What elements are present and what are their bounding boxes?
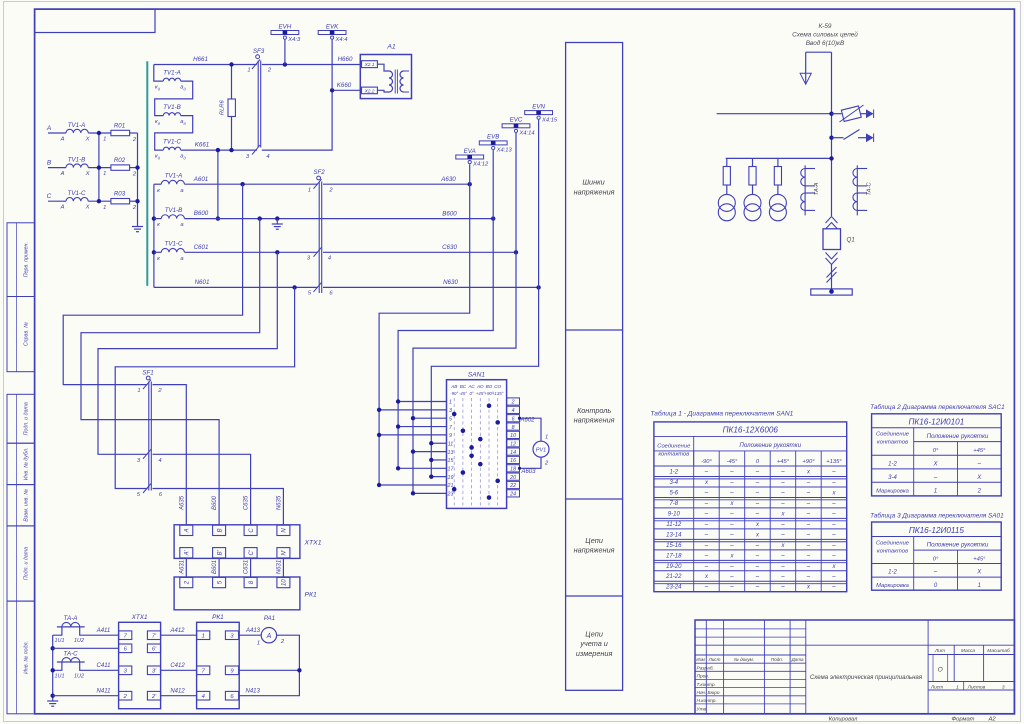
svg-text:–: –: [780, 522, 785, 528]
svg-text:X4:14: X4:14: [518, 131, 534, 137]
svg-text:Маркировка: Маркировка: [876, 488, 910, 494]
svg-text:Инв. № подл.: Инв. № подл.: [24, 641, 30, 674]
svg-text:-45°: -45°: [727, 459, 738, 465]
svg-text:№ докум.: № докум.: [734, 657, 754, 662]
svg-text:N: N: [282, 528, 288, 533]
svg-text:X4:4: X4:4: [335, 37, 348, 43]
svg-text:Взам. инв. №: Взам. инв. №: [24, 489, 30, 522]
svg-text:–: –: [729, 469, 734, 475]
svg-text:–: –: [806, 522, 811, 528]
svg-text:1: 1: [308, 188, 311, 194]
svg-text:X2.1: X2.1: [364, 62, 375, 68]
svg-text:А635: А635: [179, 495, 185, 511]
svg-text:23-24: 23-24: [665, 585, 682, 591]
svg-text:PV1: PV1: [536, 448, 546, 454]
svg-text:–: –: [780, 501, 785, 507]
svg-text:–: –: [755, 501, 760, 507]
svg-text:TV1-B: TV1-B: [163, 104, 181, 111]
svg-text:В600: В600: [212, 495, 218, 510]
svg-text:3: 3: [449, 408, 452, 414]
svg-text:Соединение: Соединение: [657, 444, 691, 450]
svg-text:ПК16-12И0101: ПК16-12И0101: [909, 417, 965, 426]
svg-text:16: 16: [510, 458, 516, 464]
svg-text:–: –: [831, 532, 836, 538]
svg-text:–: –: [780, 574, 785, 580]
svg-text:H661: H661: [193, 56, 208, 63]
svg-text:Шинки: Шинки: [582, 178, 604, 187]
svg-text:4: 4: [328, 256, 331, 262]
svg-text:+135°: +135°: [826, 459, 842, 465]
svg-text:4: 4: [202, 694, 205, 700]
svg-text:кд: кд: [155, 85, 161, 92]
svg-text:А': А': [185, 549, 191, 556]
svg-text:6: 6: [512, 416, 515, 422]
svg-text:Копировал: Копировал: [829, 717, 859, 723]
svg-text:1: 1: [934, 488, 937, 494]
svg-text:напряжения: напряжения: [574, 546, 615, 555]
svg-text:–: –: [831, 501, 836, 507]
svg-text:ад: ад: [180, 85, 186, 92]
svg-text:А2: А2: [987, 717, 996, 723]
svg-text:Лит: Лит: [934, 648, 945, 654]
svg-text:4: 4: [266, 154, 269, 160]
svg-text:АО: АО: [476, 384, 484, 389]
svg-text:13: 13: [448, 450, 454, 456]
svg-text:напряжения: напряжения: [574, 415, 615, 424]
svg-text:TV1-B: TV1-B: [165, 207, 183, 214]
svg-text:7-8: 7-8: [669, 501, 678, 507]
svg-text:XTX1: XTX1: [131, 614, 148, 621]
svg-text:1U1: 1U1: [55, 638, 65, 644]
svg-text:–: –: [729, 522, 734, 528]
svg-text:17-18: 17-18: [666, 553, 682, 559]
svg-text:N412: N412: [170, 688, 185, 694]
svg-text:9-10: 9-10: [668, 511, 681, 517]
svg-text:учета и: учета и: [579, 639, 608, 648]
svg-text:11: 11: [448, 441, 454, 447]
svg-text:Положение рукоятки: Положение рукоятки: [739, 442, 801, 449]
svg-text:–: –: [755, 564, 760, 570]
svg-text:Цепи: Цепи: [585, 629, 603, 638]
svg-text:А: А: [46, 125, 51, 132]
svg-text:–: –: [806, 511, 811, 517]
svg-text:1: 1: [103, 205, 106, 211]
svg-text:1-2: 1-2: [888, 461, 897, 467]
svg-text:ТА-С: ТА-С: [63, 650, 78, 657]
svg-text:TV1-C: TV1-C: [163, 139, 181, 146]
svg-text:–: –: [806, 564, 811, 570]
svg-text:1-2: 1-2: [888, 570, 897, 576]
svg-text:A1: A1: [386, 44, 396, 51]
svg-text:–: –: [755, 543, 760, 549]
svg-text:0°: 0°: [469, 391, 473, 396]
svg-text:А: А: [266, 633, 272, 640]
svg-text:–: –: [831, 480, 836, 486]
svg-text:XTX1: XTX1: [304, 540, 322, 547]
svg-text:Изм: Изм: [696, 657, 705, 662]
svg-text:С: С: [249, 528, 255, 533]
svg-text:17: 17: [448, 467, 455, 473]
svg-text:контактов: контактов: [658, 452, 689, 458]
svg-text:В: В: [217, 528, 223, 532]
svg-text:Таблица 3 Диаграмма переключат: Таблица 3 Диаграмма переключателя SA01: [870, 512, 1004, 520]
svg-text:–: –: [755, 490, 760, 496]
svg-text:–: –: [704, 585, 709, 591]
svg-text:С412: С412: [170, 663, 185, 669]
svg-text:Перв. примен.: Перв. примен.: [24, 242, 30, 277]
svg-text:TV1-A: TV1-A: [68, 122, 86, 129]
svg-text:–: –: [831, 511, 836, 517]
svg-text:–: –: [755, 480, 760, 486]
svg-text:–: –: [806, 543, 811, 549]
svg-text:А412: А412: [169, 628, 185, 634]
svg-text:–: –: [780, 553, 785, 559]
svg-text:–: –: [806, 480, 811, 486]
svg-text:–: –: [729, 490, 734, 496]
svg-text:A601: A601: [193, 176, 208, 183]
svg-text:0°: 0°: [933, 448, 939, 454]
svg-text:–: –: [806, 532, 811, 538]
svg-text:Цепи: Цепи: [585, 536, 603, 545]
svg-text:1: 1: [137, 388, 140, 394]
svg-text:SF2: SF2: [313, 169, 325, 176]
svg-text:ад: ад: [180, 119, 186, 126]
svg-text:РК1: РК1: [305, 592, 318, 599]
svg-text:1-2: 1-2: [669, 469, 678, 475]
svg-text:4: 4: [512, 408, 515, 414]
svg-text:EVK: EVK: [326, 23, 339, 30]
svg-text:3-4: 3-4: [669, 480, 678, 486]
svg-text:О: О: [938, 667, 943, 674]
svg-text:Подп.: Подп.: [771, 657, 783, 662]
svg-text:–: –: [755, 574, 760, 580]
svg-text:–: –: [831, 469, 836, 475]
svg-text:19: 19: [448, 475, 454, 481]
svg-text:11-12: 11-12: [666, 522, 682, 528]
svg-text:к: к: [157, 222, 160, 228]
svg-text:EVH: EVH: [279, 23, 292, 30]
svg-text:–: –: [933, 475, 938, 481]
svg-text:K661: K661: [195, 142, 209, 149]
svg-text:–: –: [780, 585, 785, 591]
svg-text:–: –: [729, 480, 734, 486]
svg-text:к: к: [157, 256, 160, 262]
svg-text:Масштаб: Масштаб: [987, 648, 1010, 654]
svg-text:–: –: [729, 564, 734, 570]
svg-text:контактов: контактов: [877, 440, 908, 446]
svg-text:5: 5: [449, 416, 452, 422]
svg-text:кд: кд: [155, 154, 161, 161]
svg-text:ад: ад: [180, 154, 186, 161]
svg-text:–: –: [704, 532, 709, 538]
svg-text:В': В': [217, 549, 223, 555]
svg-text:Формат: Формат: [951, 717, 974, 723]
svg-text:21-22: 21-22: [665, 574, 682, 580]
svg-text:X4:12: X4:12: [472, 162, 489, 168]
svg-text:–: –: [780, 469, 785, 475]
svg-text:+45°: +45°: [777, 459, 790, 465]
svg-text:1U1: 1U1: [55, 673, 65, 679]
svg-text:–: –: [831, 574, 836, 580]
svg-text:Масса: Масса: [961, 648, 976, 654]
svg-text:2: 2: [511, 400, 515, 406]
svg-text:A603: A603: [520, 469, 536, 475]
svg-text:N413: N413: [246, 688, 261, 694]
svg-text:–: –: [729, 532, 734, 538]
svg-text:А411: А411: [96, 628, 111, 634]
svg-text:8: 8: [512, 425, 515, 431]
svg-text:–: –: [831, 553, 836, 559]
svg-text:1: 1: [202, 634, 205, 640]
svg-text:С: С: [47, 193, 52, 200]
svg-text:A602: A602: [519, 418, 535, 424]
svg-text:1U2: 1U2: [74, 638, 84, 644]
svg-text:20: 20: [509, 475, 516, 481]
svg-text:–: –: [704, 490, 709, 496]
svg-text:2': 2': [151, 694, 157, 700]
svg-text:19-20: 19-20: [666, 564, 682, 570]
svg-text:24: 24: [509, 492, 516, 498]
svg-text:–: –: [729, 574, 734, 580]
svg-text:1: 1: [545, 435, 548, 441]
svg-text:23: 23: [447, 492, 454, 498]
svg-text:X2.2: X2.2: [364, 88, 375, 94]
svg-text:C601: C601: [194, 244, 209, 251]
svg-text:А: А: [185, 528, 191, 533]
svg-text:X4:13: X4:13: [496, 148, 513, 154]
svg-text:Таблица 2 Диаграмма переключат: Таблица 2 Диаграмма переключателя SAC1: [870, 403, 1005, 411]
svg-text:EVA: EVA: [464, 148, 476, 155]
svg-text:Положение рукоятки: Положение рукоятки: [927, 433, 989, 440]
svg-text:ТА-С: ТА-С: [866, 182, 872, 196]
svg-text:Схема электрическая принципиал: Схема электрическая принципиальная: [810, 674, 923, 681]
svg-text:R02: R02: [114, 157, 126, 164]
svg-text:10: 10: [282, 579, 288, 586]
svg-text:–: –: [755, 511, 760, 517]
svg-text:15: 15: [448, 458, 454, 464]
svg-text:В: В: [47, 159, 52, 166]
svg-text:–: –: [729, 511, 734, 517]
svg-text:15-16: 15-16: [666, 543, 682, 549]
svg-text:Разраб.: Разраб.: [697, 666, 714, 672]
svg-text:N411: N411: [97, 688, 111, 694]
svg-text:–: –: [729, 543, 734, 549]
svg-text:+45°: +45°: [973, 556, 986, 562]
svg-text:РК1: РК1: [212, 614, 224, 621]
svg-text:–: –: [780, 564, 785, 570]
svg-text:1: 1: [257, 640, 260, 646]
svg-text:РА1: РА1: [264, 615, 275, 622]
svg-text:Контроль: Контроль: [577, 406, 611, 415]
svg-text:14: 14: [510, 450, 516, 456]
svg-text:–: –: [704, 469, 709, 475]
svg-text:С635: С635: [244, 495, 250, 510]
svg-text:1: 1: [978, 583, 981, 589]
svg-text:N635: N635: [276, 495, 282, 510]
svg-text:X4:15: X4:15: [541, 117, 558, 123]
svg-text:22: 22: [509, 483, 516, 489]
svg-text:Соединение: Соединение: [876, 541, 910, 547]
svg-text:Соединение: Соединение: [876, 432, 910, 438]
svg-text:–: –: [780, 490, 785, 496]
svg-text:Лист: Лист: [708, 657, 721, 662]
svg-text:–: –: [704, 522, 709, 528]
svg-text:С': С': [249, 549, 255, 555]
svg-text:–: –: [704, 501, 709, 507]
svg-text:А: А: [60, 136, 65, 142]
svg-text:SF3: SF3: [253, 48, 265, 55]
svg-text:–: –: [806, 574, 811, 580]
svg-text:-90°: -90°: [701, 459, 712, 465]
svg-text:2: 2: [977, 488, 982, 494]
svg-text:В601: В601: [212, 560, 218, 574]
svg-text:–: –: [755, 585, 760, 591]
svg-text:–: –: [831, 522, 836, 528]
svg-text:N630: N630: [443, 279, 458, 286]
svg-text:4: 4: [158, 458, 161, 464]
svg-text:9: 9: [449, 433, 452, 439]
svg-text:Дата: Дата: [790, 657, 804, 662]
svg-text:5-6: 5-6: [669, 490, 678, 496]
svg-text:Маркировка: Маркировка: [876, 583, 910, 589]
svg-text:А631: А631: [179, 560, 185, 575]
svg-text:Т.контр.: Т.контр.: [697, 682, 716, 688]
svg-text:TV1-C: TV1-C: [68, 190, 86, 197]
svg-text:Пров.: Пров.: [697, 674, 710, 680]
svg-text:R03: R03: [114, 191, 126, 198]
svg-text:Подп. и дата: Подп. и дата: [24, 402, 30, 435]
svg-text:N': N': [282, 549, 288, 555]
svg-text:1: 1: [103, 171, 106, 177]
svg-text:EVC: EVC: [510, 117, 523, 124]
svg-text:ПК16-12И0115: ПК16-12И0115: [909, 526, 965, 535]
svg-text:R01: R01: [114, 122, 125, 129]
svg-text:X4:3: X4:3: [287, 37, 301, 43]
svg-text:EVN: EVN: [532, 103, 545, 110]
svg-text:1: 1: [247, 68, 250, 74]
svg-text:С411: С411: [97, 663, 111, 669]
svg-text:к: к: [157, 188, 160, 194]
svg-text:H660: H660: [338, 56, 353, 63]
svg-text:-45°: -45°: [459, 391, 467, 396]
svg-text:А: А: [60, 205, 65, 211]
svg-text:TV1-A: TV1-A: [165, 173, 183, 180]
svg-text:Подп. и дата: Подп. и дата: [24, 547, 30, 580]
svg-text:13-14: 13-14: [666, 532, 682, 538]
svg-text:–: –: [704, 553, 709, 559]
svg-text:Инв. № дубл.: Инв. № дубл.: [24, 448, 30, 481]
svg-text:+135°: +135°: [492, 391, 504, 396]
svg-text:1: 1: [103, 137, 106, 143]
svg-text:+90°: +90°: [802, 459, 815, 465]
svg-text:–: –: [755, 469, 760, 475]
svg-text:+45°: +45°: [973, 448, 986, 454]
svg-text:–: –: [704, 543, 709, 549]
svg-text:N601: N601: [195, 279, 210, 286]
svg-text:ВС: ВС: [460, 384, 467, 389]
svg-text:10: 10: [510, 433, 516, 439]
svg-text:кд: кд: [155, 119, 161, 126]
svg-text:–: –: [704, 511, 709, 517]
svg-text:TV1-C: TV1-C: [165, 241, 183, 248]
svg-text:–: –: [831, 585, 836, 591]
svg-text:А: А: [60, 171, 65, 177]
svg-text:контактов: контактов: [877, 549, 908, 555]
svg-text:измерения: измерения: [576, 649, 613, 658]
svg-text:Н.контр.: Н.контр.: [697, 698, 717, 704]
svg-text:2: 2: [185, 580, 191, 585]
svg-text:–: –: [806, 501, 811, 507]
svg-text:TV1-B: TV1-B: [68, 156, 86, 163]
svg-text:–: –: [806, 553, 811, 559]
svg-text:Утв.: Утв.: [697, 707, 708, 713]
svg-text:ТА-А: ТА-А: [814, 182, 820, 195]
svg-text:–: –: [729, 585, 734, 591]
svg-text:C630: C630: [442, 244, 457, 251]
svg-text:АС: АС: [467, 384, 475, 389]
svg-text:С631: С631: [244, 560, 250, 574]
svg-text:–: –: [977, 461, 982, 467]
svg-text:B600: B600: [194, 210, 209, 217]
svg-text:18: 18: [510, 467, 516, 473]
svg-text:ПК16-12Х6006: ПК16-12Х6006: [723, 425, 779, 434]
svg-text:B600: B600: [442, 210, 457, 217]
svg-text:ТА-А: ТА-А: [64, 615, 78, 622]
svg-text:N631: N631: [276, 560, 282, 574]
svg-text:SF1: SF1: [142, 369, 153, 376]
svg-text:EVB: EVB: [487, 134, 499, 141]
svg-text:–: –: [780, 480, 785, 486]
svg-text:Схема силовых цепей: Схема силовых цепей: [792, 31, 858, 39]
svg-text:1U2: 1U2: [74, 673, 84, 679]
svg-text:–: –: [704, 564, 709, 570]
svg-text:А413: А413: [245, 628, 261, 634]
svg-text:-90°: -90°: [450, 391, 458, 396]
svg-text:TV1-A: TV1-A: [163, 70, 181, 77]
svg-text:12: 12: [510, 441, 516, 447]
svg-text:СО: СО: [494, 384, 501, 389]
svg-text:АВ: АВ: [450, 384, 457, 389]
svg-text:К-59: К-59: [818, 23, 831, 30]
svg-text:Ввод 6(10)кВ: Ввод 6(10)кВ: [806, 39, 845, 47]
svg-text:Положение рукоятки: Положение рукоятки: [927, 542, 989, 549]
svg-text:ВО: ВО: [486, 384, 493, 389]
svg-text:A630: A630: [440, 176, 456, 183]
svg-text:–: –: [780, 532, 785, 538]
svg-text:напряжения: напряжения: [574, 188, 615, 197]
svg-text:Нач. Бюро: Нач. Бюро: [697, 690, 720, 696]
svg-text:0°: 0°: [933, 556, 939, 562]
svg-text:Q1: Q1: [847, 237, 855, 244]
svg-text:RLR6: RLR6: [220, 100, 226, 116]
svg-text:K660: K660: [337, 82, 352, 89]
svg-text:–: –: [933, 570, 938, 576]
svg-text:3-4: 3-4: [888, 475, 897, 481]
svg-text:Таблица 1 - Диаграмма переключ: Таблица 1 - Диаграмма переключателя SAN1: [650, 410, 793, 418]
svg-text:–: –: [806, 490, 811, 496]
svg-text:–: –: [755, 553, 760, 559]
svg-text:Справ. №: Справ. №: [24, 322, 30, 346]
svg-text:SAN1: SAN1: [468, 372, 486, 379]
svg-text:1: 1: [449, 400, 452, 406]
svg-text:–: –: [831, 543, 836, 549]
